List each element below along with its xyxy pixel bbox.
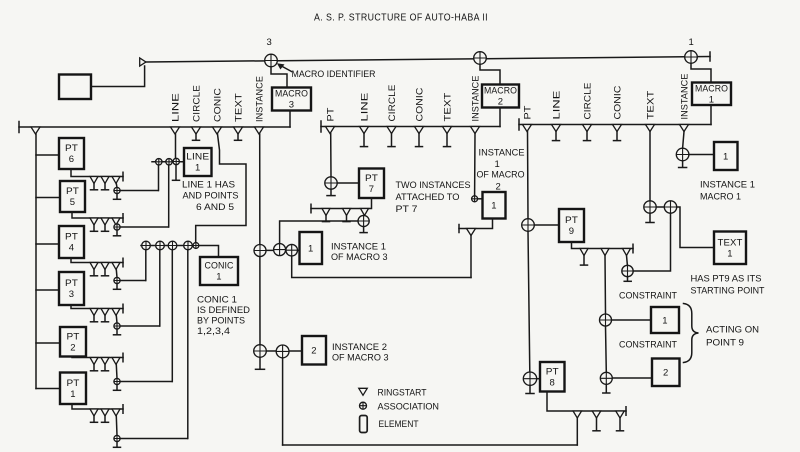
tick right end PT 8 row [625,407,627,416]
svg-text:ELEMENT: ELEMENT [379,419,419,430]
wire association PT 1 to chain [120,438,187,440]
ringstart CONIC bus1 [213,127,222,134]
association macro identifier 1 [685,51,698,64]
constraint box 2 [652,359,680,387]
svg-text:CONIC: CONIC [612,85,622,119]
svg-text:TEXT: TEXT [718,237,743,248]
association conic chain 4 [184,241,193,250]
association macro identifier 3 [265,54,278,67]
point box PT 3 [59,272,84,305]
stub below association PT 1 [116,442,118,447]
association conic chain 3 [168,241,177,250]
wire instance1-of-macro3 chain [266,249,300,251]
association instance2 m3 a [254,345,267,358]
stub below association PT 2 [116,385,118,390]
box top-left (unlabeled element) [59,75,91,100]
svg-text:2: 2 [663,368,668,379]
wire LINE bus1 to line-1 association chain [175,134,177,158]
association PT 6 [114,187,120,193]
ringstart INSTANCE bus3 [680,125,689,132]
svg-text:1: 1 [662,315,667,326]
ringstart 2 PT 2 [101,358,109,365]
row wire PT 6 group [71,169,123,177]
svg-text:1: 1 [727,248,732,259]
ringstart 3 PT9 [623,249,631,256]
point box PT 5 [60,181,85,212]
svg-text:INSTANCE: INSTANCE [470,75,480,121]
svg-text:CIRCLE: CIRCLE [191,85,201,122]
association macro identifier 2 [474,52,487,65]
association instance2 m3 b [276,345,289,358]
association PT 1 [114,435,120,441]
tick left end bus 2 [320,121,322,132]
ringstart 1 PT 4 [90,263,98,270]
svg-text:LINE: LINE [551,91,561,120]
wire conic chain assoc 4 down to PT1 [187,250,189,439]
wire ringstart 3 PT7 to association [363,215,366,217]
ringstart PT bus2 [326,127,335,134]
ringstart 3 PT 2 [112,358,120,365]
stub below PT7 association [330,189,332,195]
svg-text:LINE: LINE [170,93,180,122]
stub below text-1 association a [649,213,651,222]
svg-text:8: 8 [550,377,555,388]
wire small association to instance box m2 [478,198,483,200]
svg-text:ATTACHED TO: ATTACHED TO [396,192,460,203]
row wire PT 8 group [547,392,626,412]
ringstart CIRCLE bus1 [192,127,201,134]
svg-text:1: 1 [308,243,313,254]
svg-text:STARTING POINT: STARTING POINT [691,286,765,297]
svg-text:OF MACRO: OF MACRO [477,170,525,181]
association below PT9 ringstart [622,265,633,276]
svg-text:PT: PT [67,378,80,389]
instance box 2 of macro 3 [302,336,326,365]
svg-text:2: 2 [311,346,316,357]
association text-1 a [644,201,656,213]
svg-text:2: 2 [498,97,503,108]
stub below PT7 ringstart association [363,227,365,233]
wire association to PT 9 box [534,224,559,226]
svg-text:CONIC 1: CONIC 1 [197,295,237,306]
point box PT 7 [359,169,384,199]
association PT 4 [114,277,120,283]
svg-text:A. S. P. STRUCTURE OF AUTO-HAB: A. S. P. STRUCTURE OF AUTO-HABA II [314,13,488,24]
svg-text:3: 3 [289,100,294,111]
wire association PT 3 to chain [120,325,159,327]
svg-text:CIRCLE: CIRCLE [387,85,397,122]
stub below instance m1 association [682,161,684,167]
svg-text:RINGSTART: RINGSTART [378,388,427,399]
stub below association PT 4 [116,284,118,289]
ringstart INSTANCE bus2 [471,127,480,134]
wire instance2-of-macro3 chain [266,350,302,352]
ringstart 3 PT 6 [112,177,120,184]
point box PT 1 [60,373,86,405]
wire MACRO 1 to bus 3 [710,105,712,125]
ringstart 1 PT 1 [90,409,98,416]
svg-text:2: 2 [496,182,501,193]
svg-text:5: 5 [70,197,75,208]
svg-text:MACRO: MACRO [695,83,728,94]
wire instance m2 box bottom to hanging ringstart [459,219,493,229]
association line chain 3 [173,158,179,164]
point box PT 8 [540,362,565,392]
wire from PT7 association down to chain [280,221,358,244]
svg-text:TWO INSTANCES: TWO INSTANCES [396,180,471,191]
svg-text:ACTING ON: ACTING ON [706,325,759,336]
wire conic chain assoc 2 down to PT3 [159,250,161,326]
svg-text:4: 4 [69,243,74,254]
ringstart CONIC bus2 [415,127,424,134]
svg-text:CIRCLE: CIRCLE [582,83,592,120]
wire INSTANCE bus3 down to association [683,132,684,149]
ringstart TEXT bus2 [443,127,452,134]
ringstart CONIC bus3 [613,125,622,132]
stub below association PT 3 [116,329,118,334]
row wire PT 7 group [311,198,372,209]
wire conic chain assoc 1 down to PT4 [145,250,147,281]
svg-text:1: 1 [70,389,75,400]
wire conic chain assoc 3 down to PT2 [171,250,173,382]
wire ringstart 3 PT9 to association [626,256,629,266]
stub below association PT 5 [116,230,118,235]
wire instance2 m3 drop to bottom link [282,358,284,445]
svg-text:ASSOCIATION: ASSOCIATION [378,402,440,413]
wire MACRO 3 to bus 1 [289,111,291,128]
tick right end of top line [709,52,711,61]
svg-text:PT: PT [67,331,80,342]
svg-text:LINE: LINE [359,93,369,122]
svg-text:PT: PT [66,186,79,197]
tick right end PT 5 row [122,214,124,223]
branch to PT 2 [36,342,60,344]
svg-text:1,2,3,4: 1,2,3,4 [197,326,230,337]
ringstart 3 PT8 [616,411,625,418]
legend association symbol [360,402,367,409]
tick right end PT 2 row [122,353,124,362]
ringstart 2 PT 5 [101,218,109,225]
wire instance1 chain drop to cross link [292,256,471,278]
point box PT 9 [559,209,584,242]
svg-text:CONIC: CONIC [205,261,234,272]
svg-text:HAS PT9 AS ITS: HAS PT9 AS ITS [691,274,762,285]
macro box MACRO 1 [692,83,731,106]
ringstart 1 PT7 [322,209,330,216]
ringstart LINE bus3 [552,125,561,132]
association PT 3 [114,323,120,329]
svg-text:CONSTRAINT: CONSTRAINT [619,340,677,351]
stub below CIRCLE bus2 [391,134,393,147]
svg-text:TEXT: TEXT [645,90,655,119]
macro box MACRO 3 [272,88,311,111]
wire association 1 to MACRO 1 box [691,57,711,83]
ringstart 2 PT 1 [101,409,109,416]
wire association 3 to MACRO 3 box [271,61,287,88]
start triangle pointing right [140,58,146,66]
ringstart 2 PT 3 [101,309,109,316]
ringstart 2 PT7 [343,209,351,216]
ringstart 3 PT 1 [112,409,120,416]
branch to PT 3 [36,289,59,291]
svg-text:PT: PT [365,173,378,184]
point box PT 2 [60,327,86,357]
wire association to PT 7 box [337,182,359,184]
association constraint 2 [600,372,612,384]
ringstart 1 PT8 [573,411,582,418]
wire association PT 4 to chain [120,280,145,282]
wire ringstart 3 PT 6 to association [115,184,118,188]
bottom link wire to PT 8 ringstart [283,444,578,446]
svg-text:IS DEFINED: IS DEFINED [197,305,250,316]
wire conic-1 association chain [141,246,219,258]
legend element symbol [360,416,368,433]
branch to PT 1 [36,388,60,390]
branch to PT 4 [36,243,59,245]
stub below CIRCLE bus3 [586,132,588,141]
wire ringstart 1 PT8 down to bottom link [576,418,578,445]
svg-text:PT: PT [325,107,335,121]
association PT 5 [114,224,120,230]
association PT 7 [325,177,337,189]
association conic chain 5 small [193,243,199,249]
svg-text:PT: PT [65,232,78,243]
top macro line [146,57,710,63]
svg-text:INSTANCE 1: INSTANCE 1 [700,180,755,191]
svg-text:CONIC: CONIC [414,87,424,121]
ringstart 2 PT8 [592,411,601,418]
wire CONIC bus1 routed to conic-1 association chain [196,134,246,242]
wire line chain assoc 1 down to PT6 [158,165,160,191]
svg-text:INSTANCE 1: INSTANCE 1 [331,242,386,253]
row wire PT 9 group [572,242,634,249]
left trunk wire [35,134,37,389]
wire association 2 to MACRO 2 box [480,58,500,85]
association small instance m2 [472,196,478,202]
stub below LINE bus2 [363,134,365,147]
ringstart TEXT bus1 [234,127,243,134]
association instance 1 macro 1 [676,148,689,161]
bus 2 line [321,126,500,128]
svg-text:PT: PT [565,215,578,226]
element box LINE 1 [184,148,212,176]
ringstart 1 PT 5 [90,218,98,225]
svg-text:1: 1 [216,272,221,283]
svg-text:1: 1 [723,151,728,162]
wire line chain assoc 2 down to PT5 [168,165,170,227]
wire association to PT 8 box [537,378,540,380]
svg-text:AND POINTS: AND POINTS [183,191,239,202]
stub below PT8 association [529,385,531,393]
bus 1 line [19,126,290,128]
ringstart CIRCLE bus2 [387,127,396,134]
stub below PT9 ringstart association [627,277,629,281]
tick right end PT 9 row [632,244,634,253]
wire hanging ringstart down to cross link [470,236,472,278]
wire text-1 association pair [656,206,664,208]
brace acting on point 9 [684,304,699,363]
ringstart PT bus3 [523,125,532,132]
wire association PT 6 to chain [120,190,158,192]
tick left end PT 7 row [310,204,312,213]
ringstart TEXT bus3 [646,125,655,132]
association text-1 b [664,201,676,213]
tick left end bus 3 [518,119,520,130]
ringstart 2 PT 4 [101,263,109,270]
association instance1 m3 a [254,245,266,257]
instance box 1 of macro 1 [714,142,738,170]
stub below TEXT bus2 [446,134,448,147]
ringstart 1 PT 3 [90,309,98,316]
ringstart 2 PT9 [601,249,609,256]
svg-text:OF MACRO 3: OF MACRO 3 [332,353,389,364]
association instance1 m3 c [286,244,298,256]
wire ringstart 3 PT 5 to association [115,224,118,225]
svg-text:6 AND 5: 6 AND 5 [196,202,234,213]
ringstart 1 PT9 [580,249,588,256]
ringstart INSTANCE bus1 [255,127,264,134]
wire INSTANCE bus1 long drop to instance associations [259,134,261,345]
wire TEXT bus3 down to text-1 associations [649,132,651,201]
svg-text:POINT 9: POINT 9 [706,338,744,349]
bus 3 line [519,124,711,126]
point box PT 4 [59,226,84,258]
svg-text:INSTANCE: INSTANCE [679,74,689,120]
association conic chain 1 [142,241,151,250]
svg-text:PT: PT [546,366,559,377]
wire constraint 1 association to box [612,319,652,321]
association constraint 1 [600,314,612,326]
svg-text:7: 7 [369,184,374,195]
association below PT7 ringstart [358,215,369,226]
ringstart LINE bus2 [360,127,369,134]
svg-text:1: 1 [689,37,694,48]
svg-text:OF MACRO 3: OF MACRO 3 [331,252,388,263]
wire INSTANCE bus2 down to instance 1 of macro 2 [474,134,476,196]
tick left end bus 1 [18,122,20,133]
row wire PT 4 group [71,258,123,263]
branch to PT 6 [36,154,59,156]
tick left end of hanging ringstart wire [458,225,460,233]
stub below TEXT bus1 [237,134,239,140]
svg-text:LINE: LINE [186,152,209,163]
macro box MACRO 2 [482,85,519,108]
row wire PT 2 group [72,357,123,358]
association line chain 2 [166,159,172,165]
svg-text:2: 2 [70,342,75,353]
constraint box 1 [651,307,679,333]
wire PT bus3 down through associations to PT8 [528,132,530,373]
ringstart LINE bus1 [171,127,180,134]
svg-text:PT: PT [65,278,78,289]
wire text-1 association b down to PT9 association [633,213,670,271]
point box PT 6 [59,138,84,169]
wire ringstart 3 PT 3 to association [115,316,118,323]
ringstart 3 PT 4 [112,263,120,270]
row wire PT 1 group [72,404,123,409]
instance box 1 of macro 3 [300,232,323,264]
svg-text:6: 6 [69,154,74,165]
ringstart 3 PT 5 [112,218,120,225]
element box CONIC 1 [200,257,238,285]
svg-text:PT: PT [522,105,532,119]
wire PT bus2 down to association [330,134,332,177]
stub below constraint 2 association [605,384,607,392]
svg-text:MACRO: MACRO [484,86,517,97]
stub below line chain assoc 3 [175,165,177,180]
svg-text:BY POINTS: BY POINTS [197,316,245,327]
branch to PT 5 [36,197,60,199]
svg-text:PT: PT [65,143,78,154]
ringstart 3 PT 3 [112,309,120,316]
stub below CONIC bus2 [418,134,420,147]
association conic chain 2 [156,241,165,250]
svg-text:INSTANCE: INSTANCE [479,148,525,159]
wire line-1 association chain [152,161,184,163]
svg-text:CONSTRAINT: CONSTRAINT [619,291,677,302]
hanging ringstart below instance m2 [467,229,476,236]
svg-text:INSTANCE: INSTANCE [254,76,264,122]
wire association PT 5 to chain [120,226,168,228]
association instance1 m3 b [274,244,286,256]
ringstart 1 PT 2 [90,358,98,365]
svg-text:INSTANCE 2: INSTANCE 2 [332,342,387,353]
svg-text:1: 1 [195,163,200,174]
ringstart 1 PT 6 [90,177,98,184]
svg-text:9: 9 [569,226,574,237]
svg-text:CONIC: CONIC [212,88,222,122]
association PT 8 [523,372,536,385]
ringstart 2 PT 6 [101,177,109,184]
wire text-1 association b to TEXT 1 box [677,207,714,248]
svg-text:MACRO IDENTIFIER: MACRO IDENTIFIER [292,69,376,80]
svg-text:MACRO: MACRO [275,89,308,100]
svg-text:3: 3 [267,37,272,48]
ringstart CIRCLE bus3 [583,125,592,132]
svg-text:1: 1 [491,201,496,212]
ringstart to PT trunk on bus 1 [31,127,40,134]
stub below LINE bus3 [555,132,557,141]
wire ringstart 3 PT 2 to association [115,365,118,379]
tick right end PT 6 row [122,172,124,181]
svg-text:TEXT: TEXT [233,93,243,122]
svg-text:1: 1 [709,94,714,105]
wire MACRO 2 to bus 2 [499,108,501,127]
wire ringstart 2 PT9 down through constraint associations [605,256,606,373]
wire constraint 2 association to box [612,377,652,379]
row wire PT 5 group [72,212,123,218]
wire association PT 2 to chain [120,381,172,383]
svg-text:3: 3 [69,289,74,300]
ringstart 3 PT7 [361,209,369,216]
association line chain 1 [156,159,162,165]
tick right end PT 4 row [122,258,124,267]
wire association to instance box m1 [689,154,714,156]
arrow for MACRO IDENTIFIER callout [281,66,292,72]
element box TEXT 1 [714,232,746,265]
svg-text:MACRO 1: MACRO 1 [700,192,741,203]
tick right end PT 1 row [122,405,124,414]
svg-text:TEXT: TEXT [442,92,452,121]
legend ringstart symbol [359,388,368,395]
stub below CONIC bus3 [616,132,618,141]
wire ringstart 3 PT 4 to association [115,270,118,278]
svg-text:LINE 1 HAS: LINE 1 HAS [182,180,235,191]
instance box 1 of macro 2 [483,192,506,219]
association PT 9 [522,219,535,232]
association PT 2 [114,378,120,384]
row wire PT 3 group [71,305,123,309]
